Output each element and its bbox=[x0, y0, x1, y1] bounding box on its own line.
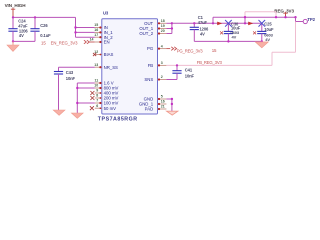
wire 1.6V pin bbox=[77, 82, 95, 84]
svg-text:C41: C41 bbox=[185, 67, 193, 72]
capacitor C25 bbox=[257, 31, 266, 33]
U3 right pin stubs bbox=[158, 23, 167, 109]
svg-text:50 mV: 50 mV bbox=[104, 106, 117, 111]
red arrow marker on rail 1 bbox=[217, 22, 222, 26]
svg-text:NR_SS: NR_SS bbox=[104, 65, 118, 70]
junction FB / C41 bbox=[176, 64, 178, 66]
junction OUT bbox=[171, 22, 173, 24]
off-page connector EN bbox=[84, 40, 89, 44]
wire FB horizontal bbox=[166, 64, 272, 66]
wire VIN rail bbox=[13, 16, 76, 18]
svg-text:VIN_HIGH: VIN_HIGH bbox=[5, 3, 27, 8]
capacitor C30 bbox=[224, 31, 233, 33]
junction rail / C1 bbox=[193, 22, 195, 24]
capacitor C1 bbox=[190, 27, 199, 29]
svg-text:10: 10 bbox=[94, 84, 98, 88]
wire input ground rail bbox=[13, 40, 35, 42]
svg-text:TPS7A85RGR: TPS7A85RGR bbox=[98, 117, 138, 123]
wire riser x213 bbox=[212, 17, 214, 23]
junction GND_1 bbox=[171, 103, 173, 105]
DNP X capacitor C30 bbox=[225, 20, 232, 27]
wire PG stub bbox=[166, 48, 170, 50]
wire FB drop bbox=[295, 22, 297, 53]
wire REG_3V3 rail bbox=[213, 16, 296, 18]
svg-text:EN: EN bbox=[104, 40, 110, 45]
no-connect X pin 12 BIAS bbox=[93, 53, 96, 56]
wire 100mV pin bbox=[77, 102, 95, 104]
wire FB riser bbox=[271, 52, 273, 65]
svg-text:OUT_2: OUT_2 bbox=[139, 31, 153, 36]
capacitor C26 bbox=[30, 29, 39, 32]
wire C41 to SNS pin bbox=[166, 79, 177, 81]
junction 800mV bbox=[76, 87, 78, 89]
svg-text:15: 15 bbox=[212, 48, 217, 53]
wire REG_3V3 port drop bbox=[285, 13, 287, 17]
capacitor C41 bbox=[172, 71, 181, 74]
svg-text:FB_REG_3V3: FB_REG_3V3 bbox=[197, 60, 223, 65]
svg-text:10uF: 10uF bbox=[264, 27, 274, 32]
svg-text:11: 11 bbox=[94, 79, 98, 83]
junction 100mV bbox=[76, 102, 78, 104]
svg-text:4V: 4V bbox=[200, 32, 205, 37]
junction IN bbox=[74, 26, 76, 28]
wire C1 bottom bbox=[193, 30, 195, 42]
wire OUT1 to join bbox=[166, 28, 172, 30]
svg-text:PAD: PAD bbox=[145, 107, 154, 112]
junction IN_1 bbox=[74, 31, 76, 33]
svg-text:3: 3 bbox=[161, 61, 163, 65]
wire C30 top bbox=[227, 23, 229, 31]
junction bridge left bbox=[244, 16, 246, 18]
svg-text:20: 20 bbox=[161, 29, 165, 33]
U3 right pin names bbox=[139, 21, 154, 112]
capacitor C24 bbox=[8, 29, 17, 32]
wire to IN pin 0 bbox=[76, 27, 95, 29]
wire EN stub bbox=[90, 41, 95, 43]
ground NR_SS bbox=[53, 110, 65, 115]
DNP pin mark C25 bbox=[253, 31, 256, 34]
svg-text:10nF: 10nF bbox=[185, 74, 195, 79]
capacitor C43 bbox=[54, 72, 63, 75]
svg-text:TP2: TP2 bbox=[307, 17, 315, 22]
junction rail / riser 213 bbox=[212, 22, 214, 24]
junction C24 / ground bbox=[12, 40, 14, 42]
wire C25 bottom bbox=[261, 34, 263, 42]
red arrow marker on rail 2 bbox=[248, 22, 253, 26]
svg-text:0.1uF: 0.1uF bbox=[40, 33, 51, 38]
wire ground stub bbox=[12, 41, 14, 45]
junction C30 ground bbox=[227, 40, 229, 42]
svg-text:9: 9 bbox=[96, 89, 98, 93]
wire OUT join vertical bbox=[171, 23, 173, 33]
wire mV vertical to ground bbox=[76, 83, 78, 113]
wire to IN pin 1 bbox=[76, 31, 95, 33]
wire to TP2 bbox=[296, 21, 304, 23]
svg-text:REG_3V3: REG_3V3 bbox=[274, 8, 294, 13]
U3 left pin numbers bbox=[90, 23, 99, 108]
wire GND vertical bbox=[171, 99, 173, 111]
wire riser x245 bbox=[244, 17, 246, 23]
svg-text:14: 14 bbox=[90, 38, 94, 42]
svg-text:4: 4 bbox=[161, 44, 163, 48]
svg-text:2: 2 bbox=[161, 75, 163, 79]
svg-text:PG: PG bbox=[147, 46, 154, 51]
ground mV pins bbox=[71, 113, 83, 118]
junction GND bbox=[171, 98, 173, 100]
wire NR_SS down bbox=[58, 67, 60, 71]
svg-text:4V: 4V bbox=[19, 33, 24, 38]
svg-text:C26: C26 bbox=[40, 23, 48, 28]
wire C26 top bbox=[34, 17, 36, 28]
svg-text:18: 18 bbox=[161, 19, 165, 23]
svg-text:19: 19 bbox=[161, 24, 165, 28]
DNP X capacitor C25 bbox=[259, 20, 266, 27]
svg-text:15: 15 bbox=[41, 41, 46, 46]
wire FB top horizontal bbox=[272, 51, 296, 53]
U3 right pin numbers bbox=[161, 19, 165, 109]
junction bridge right bbox=[275, 16, 277, 18]
op-amp U1 regulator body U3 TPS7A85RGR bbox=[102, 19, 158, 114]
svg-text:7: 7 bbox=[96, 99, 98, 103]
wire GND stub join bbox=[166, 98, 172, 100]
ground output section bbox=[255, 42, 268, 48]
svg-text:4V: 4V bbox=[232, 34, 237, 39]
U3 left pin names bbox=[104, 25, 119, 111]
wire NR_SS bbox=[59, 66, 95, 68]
svg-text:13: 13 bbox=[94, 63, 98, 67]
svg-text:16: 16 bbox=[94, 28, 98, 32]
wire VIN_HIGH drop bbox=[12, 9, 14, 17]
svg-text:6: 6 bbox=[96, 104, 98, 108]
wire C1 top bbox=[193, 23, 195, 27]
no-connect X pin 8 200mV bbox=[90, 96, 94, 100]
wire to IN pin 2 bbox=[76, 36, 95, 38]
test point TP2 bbox=[303, 19, 307, 23]
svg-text:15: 15 bbox=[94, 23, 98, 27]
svg-text:EN_REG_3V3: EN_REG_3V3 bbox=[51, 41, 79, 46]
no-connect X pin 9 400mV bbox=[90, 91, 94, 95]
wire pink bridge top bbox=[245, 11, 276, 13]
wire C26 bottom bbox=[34, 31, 36, 41]
wire output ground rail bbox=[194, 40, 261, 42]
wire pink bridge left riser bbox=[244, 12, 246, 17]
svg-text:10nF: 10nF bbox=[66, 76, 76, 81]
wire C24 bottom bbox=[12, 31, 14, 41]
svg-text:U3: U3 bbox=[103, 10, 109, 15]
svg-text:SNS: SNS bbox=[144, 77, 153, 82]
junction VIN rail / C26 bbox=[34, 16, 36, 18]
ground input section bbox=[7, 45, 19, 51]
wire IN vertical bbox=[75, 17, 77, 37]
svg-text:47uF: 47uF bbox=[198, 20, 208, 25]
off-page connector PG bbox=[171, 47, 176, 51]
wire output rail bbox=[172, 22, 262, 24]
wire C43 to ground bbox=[58, 74, 60, 110]
wire C41 top bbox=[176, 65, 178, 70]
power port REG_3V3 bar bbox=[283, 12, 287, 15]
wire C30 bottom bbox=[227, 34, 229, 42]
svg-text:C43: C43 bbox=[66, 70, 74, 75]
no-connect X pin 6 50mV bbox=[90, 106, 94, 110]
svg-text:FB: FB bbox=[148, 63, 154, 68]
DNP pin mark C30 bbox=[220, 31, 223, 34]
junction port / rail bbox=[284, 16, 286, 18]
junction OUT_1 bbox=[171, 27, 173, 29]
wire C25 top bbox=[261, 23, 263, 31]
junction VIN rail / C24 bbox=[12, 16, 14, 18]
svg-text:17: 17 bbox=[94, 33, 98, 37]
svg-text:BIAS: BIAS bbox=[104, 52, 114, 57]
svg-text:4V: 4V bbox=[265, 37, 270, 42]
wire C41 bottom bbox=[176, 73, 178, 79]
wire OUT2 to join bbox=[166, 33, 172, 35]
svg-text:21: 21 bbox=[161, 105, 165, 109]
junction rail / FB drop bbox=[294, 16, 296, 18]
U3 pin connection dots bbox=[99, 22, 160, 110]
U3 left pin stubs bbox=[95, 28, 102, 109]
svg-text:5: 5 bbox=[161, 95, 163, 99]
svg-text:PG_REG_3V3: PG_REG_3V3 bbox=[177, 48, 203, 53]
wire C24 top bbox=[12, 17, 14, 28]
svg-text:8: 8 bbox=[96, 94, 98, 98]
wire pink bridge right riser bbox=[275, 12, 277, 17]
wire OUT0 to join bbox=[166, 22, 172, 24]
wire 800mV pin bbox=[77, 87, 95, 89]
wire TP2 jog down bbox=[295, 17, 297, 21]
svg-text:16: 16 bbox=[161, 100, 165, 104]
ground IC GND pins bbox=[167, 111, 178, 115]
junction C25 ground bbox=[261, 40, 263, 42]
junction rail / riser 245 bbox=[244, 22, 246, 24]
power port VIN_HIGH bar bbox=[11, 8, 15, 11]
svg-text:12: 12 bbox=[94, 50, 98, 54]
